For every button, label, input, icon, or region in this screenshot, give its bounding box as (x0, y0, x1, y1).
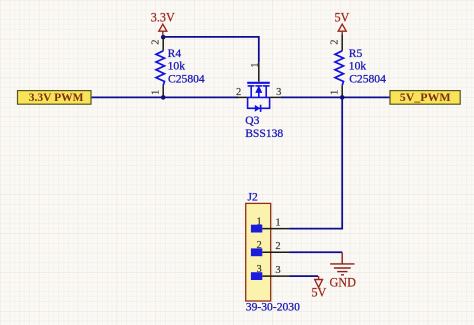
svg-text:5V: 5V (334, 11, 349, 25)
resistor R4 pin 2 (162, 37, 164, 51)
resistor R5 pin 2 (341, 35, 343, 51)
svg-text:1: 1 (250, 63, 261, 68)
connector J2 pin 3 square (251, 272, 262, 280)
connector J2 pin 2 square (251, 248, 262, 256)
svg-text:J2: J2 (248, 190, 259, 203)
transistor Q3 source stub (250, 86, 252, 98)
svg-text:10k: 10k (168, 59, 186, 72)
svg-text:1: 1 (150, 90, 161, 95)
svg-text:3: 3 (257, 264, 262, 275)
svg-text:3: 3 (276, 87, 281, 98)
ground GND symbol (341, 252, 343, 264)
wire 5V_PWM node down to J2 pin 1 (290, 97, 343, 228)
port 5V_PWM box (390, 91, 460, 105)
transistor Q3 drain stub (265, 86, 267, 98)
svg-text:Q3: Q3 (245, 114, 259, 127)
transistor Q3 source-drain connection (248, 96, 270, 98)
svg-text:R5: R5 (349, 47, 363, 60)
connector J2 body (246, 203, 271, 301)
resistor R5 body (335, 51, 344, 86)
svg-text:2: 2 (275, 241, 280, 252)
port 3.3V PWM box (18, 91, 92, 105)
svg-text:R4: R4 (168, 47, 182, 60)
wire Q3 pin3 to R5 pin1 to 5V_PWM port (281, 96, 390, 98)
resistor R5 pin 1 (341, 85, 343, 97)
transistor Q3 channel segments (248, 85, 255, 87)
connector J2 pin 2 lead (262, 251, 289, 253)
svg-text:C25804: C25804 (168, 73, 205, 86)
svg-text:2: 2 (150, 39, 161, 44)
power port 5V symbol (open triangle) (338, 24, 346, 31)
transistor Q3 gate bar (247, 82, 270, 84)
wire top: 3.3V node to Q3 gate (163, 37, 259, 62)
transistor Q3 pin 2 (left) (237, 96, 248, 98)
svg-text:2: 2 (257, 240, 262, 251)
svg-text:1: 1 (329, 90, 340, 95)
svg-text:1: 1 (257, 216, 262, 227)
svg-text:3.3V PWM: 3.3V PWM (29, 92, 84, 104)
connector J2 pin 1 square (251, 225, 262, 233)
transistor Q3 pin 3 (right) (270, 96, 281, 98)
connector J2 pin 1 lead (262, 228, 289, 230)
wire 3.3V PWM net: port to R4 pin1 (91, 96, 238, 98)
junction node at R4 pin1 (161, 95, 166, 100)
resistor R4 pin 1 (162, 85, 164, 97)
svg-text:39-30-2030: 39-30-2030 (246, 301, 300, 314)
svg-text:1: 1 (275, 217, 280, 228)
transistor Q3 body diode (255, 105, 260, 112)
power port 5V (bottom, at J2 pin 3) symbol (318, 276, 320, 279)
wire J2 pin 3 to 5V power port (290, 275, 319, 277)
svg-text:C25804: C25804 (349, 73, 386, 86)
junction node at R5 pin1 / 5V_PWM (340, 95, 345, 100)
resistor R4 body (156, 51, 165, 86)
connector J2 pin 3 lead (262, 275, 289, 277)
transistor Q3 body diode loop (248, 97, 270, 108)
svg-text:10k: 10k (349, 59, 367, 72)
svg-text:3.3V: 3.3V (151, 11, 175, 25)
svg-text:5V_PWM: 5V_PWM (400, 90, 451, 104)
svg-text:GND: GND (329, 275, 356, 289)
svg-text:BSS138: BSS138 (245, 127, 283, 140)
svg-text:2: 2 (236, 87, 241, 98)
transistor Q3 substrate arrow (256, 86, 262, 93)
power port 3.3V symbol (open triangle) (159, 24, 167, 31)
svg-text:5V: 5V (311, 286, 326, 300)
svg-text:3: 3 (275, 265, 280, 276)
svg-text:2: 2 (329, 39, 340, 44)
junction node at 3.3V / R4 pin2 / gate wire (161, 35, 166, 40)
wire J2 pin 2 to GND (290, 251, 343, 253)
transistor Q3 gate pin (258, 62, 260, 82)
